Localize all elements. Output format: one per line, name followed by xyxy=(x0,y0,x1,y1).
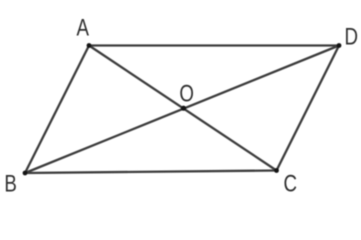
svg-text:D: D xyxy=(344,23,358,50)
side DC xyxy=(277,46,340,171)
svg-text:A: A xyxy=(77,14,90,41)
label O xyxy=(179,81,194,108)
svg-text:O: O xyxy=(179,81,194,108)
label C xyxy=(283,171,297,198)
svg-text:C: C xyxy=(283,171,297,198)
label A xyxy=(77,14,90,41)
vertex dot C xyxy=(274,168,279,173)
label D xyxy=(344,23,358,50)
diagonal BD xyxy=(25,46,339,174)
vertex dot B xyxy=(23,171,28,176)
vertex dot A xyxy=(87,43,92,48)
label B xyxy=(4,171,16,198)
side AD xyxy=(89,44,339,46)
vertex dot D xyxy=(337,43,342,48)
svg-text:B: B xyxy=(4,171,16,198)
intersection dot O xyxy=(181,106,186,111)
side BA xyxy=(25,46,89,174)
side CB xyxy=(25,171,277,174)
diagonal AC xyxy=(89,46,277,171)
